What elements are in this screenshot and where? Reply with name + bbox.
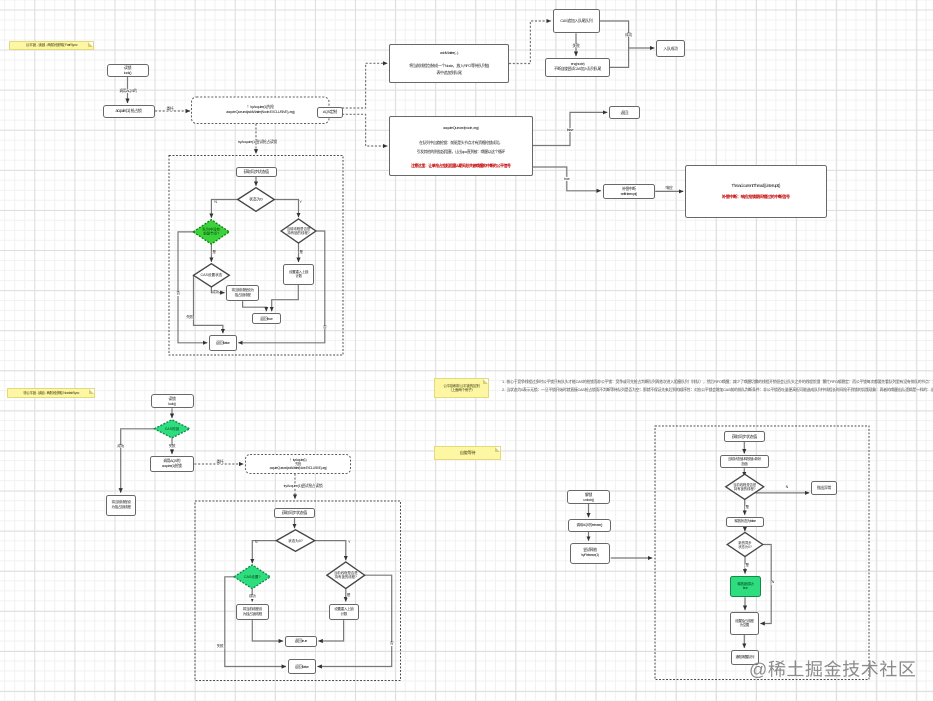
box unlock entry <box>567 490 610 504</box>
box acquireQueued <box>389 116 533 176</box>
wire queue-check no to return-false1 <box>178 232 207 343</box>
wire state3 to calc <box>743 442 745 454</box>
wire lock2 to CAS-grab <box>171 408 173 418</box>
note spin-wait label <box>434 446 501 460</box>
wire diamond-state2 N to owner-check2 <box>315 541 346 561</box>
wire delegate to acquireQueued dashed <box>342 114 387 146</box>
wire owner-check yes to reentrant1 <box>298 243 300 262</box>
wire delegate2 down into container2 dashed <box>294 474 296 499</box>
box template-method dashed nonfair <box>246 455 351 474</box>
wire acquire2 to delegate2 dashed <box>194 463 243 465</box>
watermark juejin community <box>749 656 925 682</box>
wire state1 to diamond-state1 <box>255 177 257 186</box>
label owner-check-no nonfair <box>390 642 394 646</box>
wire diamond-state1 N to owner-check <box>274 200 298 218</box>
box AQS-custom <box>317 107 343 118</box>
box return-true fair <box>252 313 282 324</box>
label state-zero-no nonfair <box>347 541 350 545</box>
label enq-fail <box>572 43 580 47</box>
wire CAS-grab fail to acquire2 <box>171 438 173 454</box>
label state-zero-yes fair <box>214 201 217 205</box>
box get-sync-state fair <box>236 167 277 177</box>
wire unlock to release <box>588 504 590 518</box>
text diamond owner-check release <box>727 483 763 491</box>
label call-AQS <box>119 88 138 92</box>
text diamond CAS-grab <box>156 427 188 431</box>
box set-reentrant nonfair <box>329 604 360 621</box>
text diamond owner-check nonfair <box>329 571 363 580</box>
wire set-owner1 to return-true1 <box>243 301 267 311</box>
label enq-success <box>625 33 633 37</box>
diamond new-state-zero release <box>727 533 763 557</box>
wire diamond-state1 Y to queue-check <box>211 200 237 218</box>
container tryAcquire fair <box>169 156 343 356</box>
label tryAcquire-attempt2 <box>283 483 323 487</box>
wire acquire1 to delegate dashed <box>155 110 190 112</box>
diamond state-is-zero fair <box>238 188 275 212</box>
label CAS1-fail <box>186 316 194 320</box>
wire diamond-zero3 yes to release-ok <box>744 557 746 574</box>
text diamond state-is-zero fair <box>241 197 271 202</box>
wire tryAcquire down into container1 dashed <box>255 124 257 154</box>
box template-method dashed fair <box>192 97 330 124</box>
wire state2 to diamond-state2 <box>294 518 296 528</box>
box set-owner fair <box>226 285 259 301</box>
label new-state-zero-yes <box>745 564 749 568</box>
box enqueued-ok <box>656 40 685 58</box>
diamond CAS-set-state nonfair green <box>234 565 270 589</box>
wire owner-check no to return-false1 <box>238 231 324 343</box>
container tryRelease <box>655 426 869 680</box>
diamond CAS-set-state fair <box>194 264 230 287</box>
wire acquireQueued true to selfInterrupt <box>533 167 601 191</box>
label owner-check-yes nonfair <box>346 594 350 598</box>
label CAS2-success <box>248 595 256 599</box>
wire owner-check3 yes to release-state <box>744 500 746 515</box>
text diamond queue-check fair <box>194 228 228 237</box>
wire release-state to diamond-zero3 <box>744 527 746 531</box>
text diamond owner-check fair <box>282 227 315 236</box>
box get-sync-state nonfair <box>274 508 315 519</box>
box set-owner direct <box>106 495 136 516</box>
wire owner-check3 N to throw <box>754 492 810 494</box>
box return-true nonfair <box>285 636 317 647</box>
note fair-lock label <box>9 41 94 50</box>
box interrupt-compensate <box>685 165 827 218</box>
diamond no-queued-predecessor fair green <box>193 220 229 244</box>
text numbered note line2 <box>502 386 933 393</box>
wire delegate to addWaiter dashed <box>342 63 387 108</box>
wire CAS-enqueue fail down to enq <box>575 33 577 56</box>
label owner-check-yes fair <box>299 251 303 255</box>
box acquire entry fair <box>103 105 155 118</box>
wire CAS1 success to set-owner1 <box>211 287 224 293</box>
box release state false <box>726 517 764 528</box>
label true-return <box>564 176 570 180</box>
box enq spin enqueue <box>545 58 610 78</box>
label state-zero-yes nonfair <box>254 541 257 545</box>
text diamond new-state-zero <box>729 540 761 548</box>
wire release to tryRelease <box>588 532 590 541</box>
wire reentrant2 to return-true2 <box>318 620 343 641</box>
wire addWaiter to CAS-enqueue dashed <box>509 21 551 64</box>
wire tryRelease into container3 <box>611 557 652 559</box>
box template-method dashed nonfair outline <box>246 455 351 474</box>
box get-sync-state release <box>724 431 765 442</box>
wire acquireQueued false to return <box>533 112 607 145</box>
wire owner-check2 yes to reentrant2 <box>345 589 347 602</box>
box return simple <box>609 106 640 119</box>
text diamond CAS2 <box>236 575 268 579</box>
box set-owner nonfair <box>236 604 269 621</box>
box release call <box>568 519 611 532</box>
label CAS-grab-fail <box>168 445 176 449</box>
box throw exception <box>811 481 837 495</box>
diamond is-owner-thread release <box>726 474 764 499</box>
label queue-check-yes <box>212 251 216 255</box>
label CAS2-fail <box>216 645 224 649</box>
wire queue-check yes to CAS1 <box>210 244 212 262</box>
box read-lock entry fair <box>107 64 149 77</box>
box return-false fair <box>209 335 237 351</box>
diamond is-owner-thread nonfair <box>327 562 365 589</box>
box notify wake queue <box>731 650 759 665</box>
text numbered note line1 <box>502 378 933 385</box>
wire lock1 to acquire1 <box>127 77 129 103</box>
label owner-check-no release <box>785 486 788 490</box>
box calc new state <box>720 455 769 468</box>
diamond is-owner-thread fair <box>281 219 316 243</box>
wire release-ok to clear-owner <box>744 597 746 610</box>
label new-state-zero-no <box>771 581 774 585</box>
wire set-owner2 to return-true2 <box>252 620 283 641</box>
box return-false nonfair <box>288 659 316 674</box>
diamond CAS-grab-lock nonfair green <box>154 420 189 438</box>
text diamond state-is-zero nonfair <box>280 538 312 542</box>
wire CAS1 fail to return-false1 <box>194 275 223 333</box>
label respond <box>665 185 673 189</box>
label queue-check-no <box>176 292 180 296</box>
wire CAS2 fail to return-false2 <box>225 577 286 667</box>
wire diamond-zero3 no to clear-owner right side <box>760 545 771 624</box>
wire CAS-grab success to set-owner0 <box>121 429 155 493</box>
text diamond CAS1 <box>195 273 228 277</box>
wire CAS2 success to set-owner2 <box>251 589 253 602</box>
box template-method dashed fair outline <box>192 97 330 124</box>
label delegate1 <box>166 107 174 111</box>
box clear owner thread <box>730 612 759 635</box>
wire reentrant1 to return-true1 <box>272 285 299 312</box>
note nonfair-lock label <box>7 388 95 398</box>
wire CAS-enqueue success to enqueued-ok <box>600 21 655 48</box>
wire owner-check2 no to return-false2 <box>318 575 392 666</box>
box read-lock entry nonfair <box>151 394 194 408</box>
wire clear-owner to notify-queue <box>743 635 745 648</box>
diamond state-is-zero nonfair <box>276 530 314 552</box>
label false-return <box>566 127 574 131</box>
box CAS-append-tail <box>553 9 601 34</box>
label owner-check-no fair <box>323 326 327 330</box>
label CAS1-success <box>212 291 220 295</box>
label delegate2 <box>216 459 224 463</box>
wire calc to owner-check3 <box>743 468 745 476</box>
label state-zero-no fair <box>299 201 302 205</box>
box release success green <box>730 576 762 598</box>
label owner-check-yes release <box>745 506 749 510</box>
box set-reentrant fair <box>283 264 314 285</box>
wire enq join to enqueued-ok <box>610 49 629 68</box>
note difference label <box>434 378 489 398</box>
box tryRelease call <box>570 543 610 565</box>
box addWaiter <box>389 44 509 83</box>
box selfInterrupt <box>603 184 656 199</box>
label CAS-grab-success <box>117 445 125 449</box>
wire selfInterrupt to interrupt-box <box>655 190 683 192</box>
wire diamond-state2 Y to CAS2 <box>252 541 276 564</box>
box acquire entry nonfair <box>150 456 195 472</box>
container tryAcquire nonfair <box>195 501 401 681</box>
label tryAcquire-attempt1 <box>238 139 278 143</box>
